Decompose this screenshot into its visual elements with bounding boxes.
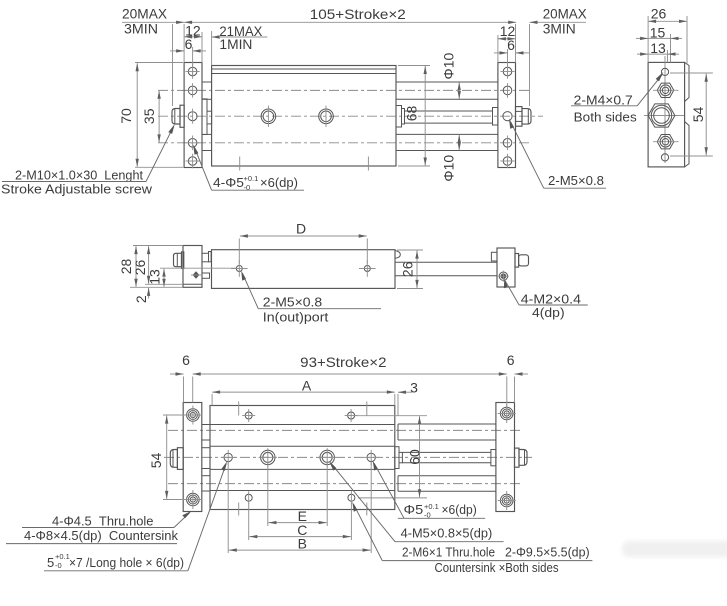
svg-text:26: 26 <box>400 261 416 277</box>
svg-text:15: 15 <box>650 25 666 41</box>
svg-text:6: 6 <box>182 352 190 368</box>
svg-text:13: 13 <box>650 40 666 56</box>
svg-text:2-M6×1 Thru.hole: 2-M6×1 Thru.hole <box>402 545 495 560</box>
svg-text:4-M5×0.8×5(dp): 4-M5×0.8×5(dp) <box>401 526 493 541</box>
svg-text:×6(dp): ×6(dp) <box>442 502 477 517</box>
svg-text:3: 3 <box>410 380 418 396</box>
svg-text:Φ5: Φ5 <box>404 502 424 517</box>
svg-text:Φ10: Φ10 <box>441 155 457 182</box>
svg-text:+0.1: +0.1 <box>244 174 259 183</box>
svg-text:5: 5 <box>47 555 54 570</box>
svg-text:68: 68 <box>403 106 419 122</box>
svg-text:×7 /Long hole × 6(dp): ×7 /Long hole × 6(dp) <box>69 555 184 570</box>
svg-text:2-M5×0.8: 2-M5×0.8 <box>263 295 322 310</box>
svg-text:6: 6 <box>507 352 515 368</box>
svg-text:B: B <box>298 535 307 551</box>
svg-text:54: 54 <box>148 453 164 469</box>
svg-text:2: 2 <box>133 295 149 303</box>
svg-text:93+Stroke×2: 93+Stroke×2 <box>300 354 387 370</box>
svg-text:54: 54 <box>690 107 706 123</box>
svg-text:70: 70 <box>118 108 134 124</box>
svg-text:2-M4×0.7: 2-M4×0.7 <box>574 92 633 107</box>
svg-text:×6(dp): ×6(dp) <box>260 175 298 190</box>
svg-text:26: 26 <box>132 260 148 276</box>
svg-text:-0: -0 <box>55 561 62 570</box>
svg-text:In(out)port: In(out)port <box>263 310 329 325</box>
svg-text:6: 6 <box>185 36 193 52</box>
svg-text:60: 60 <box>407 449 423 465</box>
svg-text:4-Φ4.5 Thru.hole: 4-Φ4.5 Thru.hole <box>52 514 154 529</box>
svg-text:105+Stroke×2: 105+Stroke×2 <box>310 6 406 22</box>
svg-text:2-M5×0.8: 2-M5×0.8 <box>548 173 604 188</box>
svg-text:Both sides: Both sides <box>574 110 638 125</box>
svg-text:1MIN: 1MIN <box>219 36 252 52</box>
svg-text:D: D <box>296 221 306 237</box>
svg-text:4-Φ8×4.5(dp) Countersink: 4-Φ8×4.5(dp) Countersink <box>24 528 178 543</box>
svg-text:3MIN: 3MIN <box>543 21 576 37</box>
svg-text:Countersink ×Both sides: Countersink ×Both sides <box>435 560 560 575</box>
svg-text:6: 6 <box>507 37 515 53</box>
svg-text:Φ10: Φ10 <box>441 53 457 80</box>
svg-text:20MAX: 20MAX <box>543 6 588 22</box>
svg-text:2-Φ9.5×5.5(dp): 2-Φ9.5×5.5(dp) <box>505 545 590 560</box>
svg-text:4-Φ5: 4-Φ5 <box>213 175 244 190</box>
svg-text:26: 26 <box>651 6 667 22</box>
svg-text:20MAX: 20MAX <box>122 6 168 22</box>
svg-text:+0.1: +0.1 <box>55 552 70 561</box>
svg-text:Stroke Adjustable screw: Stroke Adjustable screw <box>1 182 153 197</box>
svg-text:4(dp): 4(dp) <box>532 305 565 320</box>
svg-text:A: A <box>302 378 312 394</box>
svg-text:2-M10×1.0×30 Lenght: 2-M10×1.0×30 Lenght <box>15 168 143 183</box>
svg-text:3MIN: 3MIN <box>124 21 158 37</box>
svg-text:13: 13 <box>147 269 163 285</box>
svg-text:35: 35 <box>141 108 157 124</box>
